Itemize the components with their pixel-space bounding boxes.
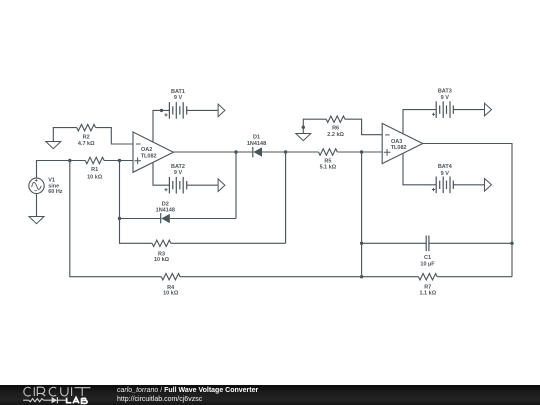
svg-text:1N4148: 1N4148 (156, 207, 175, 213)
resistor R5 (319, 149, 338, 171)
wire: mid vertical from R5 junction down to bottom rail (361, 152, 363, 277)
battery BAT1 9V (169, 102, 186, 119)
svg-text:9 V: 9 V (441, 171, 450, 177)
svg-text:R7: R7 (424, 285, 431, 291)
port/output flag at BAT2 (218, 179, 225, 192)
node: D1 anode / R3 column junction (284, 150, 287, 153)
svg-text:2.2 kΩ: 2.2 kΩ (327, 132, 344, 138)
ground (R2 net) (46, 142, 61, 149)
wire: OA2 V- supply to BAT2 (153, 162, 218, 185)
op-amp OA2 TL082 (133, 132, 173, 172)
svg-text:4.7 kΩ: 4.7 kΩ (78, 141, 95, 147)
svg-text:BAT2: BAT2 (171, 164, 185, 170)
wire: left vertical down to R4 bottom rail (70, 161, 512, 277)
svg-text:R5: R5 (324, 159, 331, 165)
svg-text:10 kΩ: 10 kΩ (87, 174, 103, 180)
battery BAT3 9V (436, 101, 453, 118)
diode D2 1N4148 (156, 201, 175, 223)
battery BAT2 9V (169, 177, 186, 194)
svg-text:C1: C1 (424, 255, 431, 261)
ground (V1) (29, 217, 44, 224)
resistor R4 (161, 274, 180, 297)
wire: OA3 V+ supply to BAT3 (403, 110, 485, 134)
logo wire and resistor squiggle (23, 399, 29, 401)
svg-text:BAT4: BAT4 (438, 164, 453, 170)
diode D1 1N4148 (247, 134, 266, 157)
svg-text:R6: R6 (332, 125, 339, 131)
node: C1 row junction (360, 242, 363, 245)
node: R6 ground stem dot (302, 126, 305, 129)
logo CIRCUIT lettering (24, 387, 91, 396)
svg-text:9 V: 9 V (174, 95, 183, 101)
capacitor C1 10uF (420, 236, 435, 268)
ground (R6 net) (296, 134, 311, 141)
resistor R3 (152, 240, 171, 263)
svg-text:R2: R2 (83, 134, 90, 140)
voltage source V1 sine 60Hz (29, 178, 63, 217)
node: bottom rail junction (360, 275, 363, 278)
node: C1 right junction on output rail (510, 242, 513, 245)
svg-text:carlo_torrano / Full Wave Volt: carlo_torrano / Full Wave Voltage Conver… (117, 387, 259, 394)
svg-text:OA2: OA2 (141, 147, 152, 153)
svg-text:D1: D1 (253, 134, 260, 140)
svg-text:TL082: TL082 (141, 153, 157, 159)
node: D2 row junction on vertical (118, 217, 121, 220)
node: junction of V1 wire and bottom-rail branch (68, 159, 71, 162)
svg-text:1N4148: 1N4148 (247, 141, 266, 147)
svg-text:9 V: 9 V (174, 170, 183, 176)
svg-text:10 kΩ: 10 kΩ (154, 257, 170, 263)
svg-text:10 µF: 10 µF (420, 261, 435, 267)
resistor R2 (77, 124, 96, 147)
wire: V1 top to R1 row into OA2 + input (37, 161, 134, 179)
svg-text:5.1 kΩ: 5.1 kΩ (320, 165, 337, 171)
wire: R2 feedback net (53, 128, 133, 144)
port/output flag at BAT4 (485, 179, 492, 192)
resistor R1 (85, 157, 104, 180)
svg-text:9 V: 9 V (441, 95, 450, 101)
wire: R6 feedback net for OA3 (303, 119, 382, 135)
node: junction at OA2 + input column (118, 159, 121, 162)
svg-text:60 Hz: 60 Hz (48, 189, 63, 195)
wire: vertical from + input row down to R3 row (120, 152, 286, 243)
logo LAB lettering (67, 397, 88, 403)
svg-text:BAT3: BAT3 (438, 89, 452, 95)
svg-text:http://circuitlab.com/cj6vzsc: http://circuitlab.com/cj6vzsc (117, 396, 203, 403)
resistor R7 (418, 274, 437, 297)
battery BAT4 9V (436, 177, 453, 194)
port/output flag at BAT1 (218, 104, 225, 117)
logo diode (52, 397, 58, 403)
wire: OA2 output row through D1 and R5 to OA3 + input (173, 151, 382, 153)
svg-text:TL082: TL082 (391, 145, 407, 151)
wire: OA3 V- supply to BAT4 (403, 153, 485, 185)
node: R5 / OA3 + input junction (360, 150, 363, 153)
svg-text:R1: R1 (91, 167, 98, 173)
footer bar (0, 385, 540, 405)
wire: C1 row (362, 242, 512, 244)
wire: OA2 V+ supply to BAT1 (153, 110, 218, 142)
op-amp OA3 TL082 (382, 123, 423, 163)
svg-text:1.1 kΩ: 1.1 kΩ (419, 291, 436, 297)
svg-text:10 kΩ: 10 kΩ (163, 291, 179, 297)
port/output flag at BAT3 (485, 103, 492, 116)
node: OA2 output / D2 return junction (234, 150, 237, 153)
node: BAT1 left terminal (160, 109, 163, 112)
resistor R6 (326, 116, 345, 138)
wire: D2 row (120, 152, 237, 219)
wire: OA3 output to right rail down to bottom rail (423, 144, 512, 277)
